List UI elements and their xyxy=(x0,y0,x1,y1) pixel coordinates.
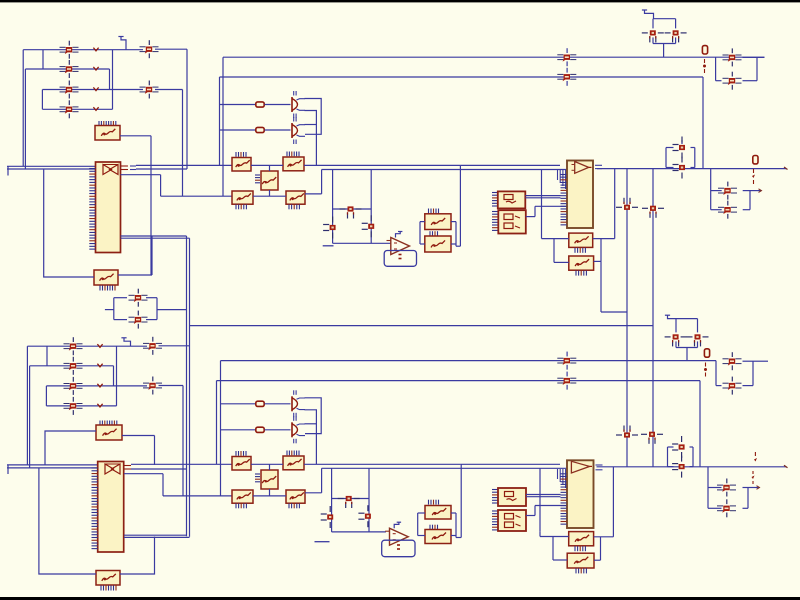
wire into X4 xyxy=(542,238,569,240)
wire vertical to bus b xyxy=(26,346,28,465)
dashed stub below R3 xyxy=(703,59,706,73)
wire vertical to F/G B xyxy=(460,464,462,537)
wire X2 right xyxy=(118,274,152,276)
connector J6 pin1 xyxy=(723,48,742,66)
capacitor C6 xyxy=(673,157,686,179)
wire vertical U5 xyxy=(534,206,536,216)
pins above X1 xyxy=(99,121,116,126)
wire end tick B xyxy=(784,465,788,468)
wire X4B right xyxy=(594,536,614,538)
connector J4B on net1b xyxy=(557,352,576,370)
long wire net1b xyxy=(221,360,717,362)
wire U1B right pin B xyxy=(124,536,190,538)
pins left of X3B xyxy=(255,474,260,482)
component X1 above U1 xyxy=(95,126,120,141)
wire cap row xyxy=(333,208,372,210)
wire bracket connector pair cluster2 xyxy=(711,169,750,210)
wire X1B right down to bus xyxy=(154,436,156,465)
pins above X1B xyxy=(100,421,117,426)
wire row B to U2 xyxy=(542,169,568,171)
feedback box U3B xyxy=(382,540,415,557)
capacitor C9 xyxy=(362,215,375,237)
long wire net1 xyxy=(223,56,765,58)
capacitor C4B xyxy=(641,432,663,444)
dashed stub below R3B xyxy=(704,363,707,377)
pin drop wires into U2B xyxy=(558,469,566,488)
wire vertical X4-X5 right xyxy=(600,239,602,262)
wire row2 xyxy=(25,68,109,70)
wire into X5 xyxy=(554,261,569,263)
wire C2B top lead xyxy=(697,319,699,333)
wire C1B bottom lead xyxy=(675,341,677,347)
pins below R7 xyxy=(236,205,246,210)
wire to R1B xyxy=(221,403,256,405)
pins left of U5B xyxy=(492,511,498,530)
connector J1 pin1 xyxy=(60,41,79,59)
wire vertical r2-r3 xyxy=(109,69,111,90)
connector J9 pin2 xyxy=(143,377,162,395)
wire U1B pin stub right xyxy=(124,473,163,475)
twin vertical wire B xyxy=(189,238,191,537)
wire row3b xyxy=(46,385,147,387)
bottom border bar xyxy=(0,597,800,600)
polarity mark xyxy=(97,384,102,387)
IC U1B left pins xyxy=(92,468,98,549)
wire stub right of J6 xyxy=(757,56,765,58)
wire vertical net1b down xyxy=(220,361,222,496)
wire row1 right xyxy=(113,49,144,51)
wire R2 to Q2 xyxy=(265,129,291,131)
wire bracket to net1 xyxy=(663,44,665,58)
wire C1 top lead xyxy=(652,19,654,29)
component X4B xyxy=(569,532,594,546)
connector J2 pin1 xyxy=(140,40,159,58)
connector J4 on net1 xyxy=(557,48,576,66)
wire row D xyxy=(161,195,232,197)
pins below X2B xyxy=(101,586,116,591)
wire vertical r2-r3 b xyxy=(113,366,115,386)
wire X5 right xyxy=(594,260,601,262)
ground stub xyxy=(323,245,334,247)
wire vertical R8B-net xyxy=(321,468,323,493)
twin vertical wire A xyxy=(186,236,188,536)
IC U1 left pins xyxy=(89,169,95,250)
long wire mid horizontal xyxy=(190,325,654,327)
pin drop wires into U2 xyxy=(558,170,566,189)
ground stub B xyxy=(315,541,330,543)
bus wire lower xyxy=(7,168,96,170)
connector J3 pin1 xyxy=(129,289,148,307)
pins below X2 xyxy=(100,286,115,291)
wire vertical r1-r4 b xyxy=(116,346,118,406)
pins above R5B xyxy=(236,451,246,456)
capacitor C1 xyxy=(642,30,664,42)
filter block R10 xyxy=(425,236,451,252)
wire stub right of J6B xyxy=(753,360,768,362)
wire U1B right pin A xyxy=(124,534,187,536)
connector J7B pin1 xyxy=(717,479,736,497)
pins below R8 xyxy=(289,205,299,210)
wire cap row B xyxy=(332,498,369,500)
connector J5 on net2 xyxy=(557,68,576,86)
wire U5 to U2 xyxy=(535,205,567,207)
wire col2 row1 xyxy=(155,48,187,50)
wire X1B left to bus xyxy=(45,431,96,465)
connector J3 pin2 xyxy=(129,311,148,329)
pins below X4B xyxy=(575,546,585,551)
wire R1B to Q1B xyxy=(265,403,291,405)
wire X1 to vertical link xyxy=(120,135,151,137)
connector J8 pin2 xyxy=(64,357,83,375)
logic block U4B xyxy=(498,488,526,506)
connector J9 pin1 xyxy=(143,337,162,355)
wire vertical to X4 xyxy=(541,170,543,239)
wire U1 right lower pin A xyxy=(121,235,187,237)
capacitor C1B xyxy=(665,334,687,346)
wire to x627 xyxy=(601,311,627,313)
connector J6 pin2 xyxy=(723,72,742,90)
connector J8 pin1 xyxy=(64,337,83,355)
wire R5B-R6B xyxy=(251,463,283,465)
long wire net2 xyxy=(220,76,704,78)
bus wire lower b xyxy=(7,467,98,469)
wire vertical R8-net xyxy=(321,170,323,194)
wire vertical down right xyxy=(600,261,602,312)
wire to R1 xyxy=(220,104,256,106)
wire U4B to U2B b xyxy=(526,496,561,498)
IC U1 main controller xyxy=(96,162,121,253)
wire X4 right xyxy=(593,238,615,240)
resistor network R5 xyxy=(232,158,251,172)
wire Q1B collector loop xyxy=(305,398,322,434)
wire vertical x653 xyxy=(652,169,654,467)
bus wire upper xyxy=(7,165,96,167)
IC U2 right pin stubs xyxy=(595,165,602,168)
antenna flag cluster3 xyxy=(665,315,676,318)
wire U4 to U2 a xyxy=(525,195,560,197)
wire capB bracket bottom xyxy=(676,347,698,349)
wire U1 pin2 to col2r1 xyxy=(136,168,187,170)
wire cap bracket bottom xyxy=(653,43,676,45)
pins above R9 xyxy=(429,209,439,214)
resistor network R8B xyxy=(286,490,305,503)
IC U1B main controller B xyxy=(98,462,124,553)
IC U1 right pin stubs xyxy=(121,166,137,170)
wire bracket mid-left pair xyxy=(114,298,157,320)
connector J1 pin3 xyxy=(60,81,79,99)
antenna flag top-left xyxy=(118,37,126,50)
wire to R2B xyxy=(221,429,256,431)
wire row1b right xyxy=(117,345,148,347)
wire into X5B xyxy=(553,559,567,561)
polarity mark xyxy=(93,87,98,90)
wire bracket F/G right B xyxy=(451,513,461,538)
dashed stub below bus right B xyxy=(752,471,755,484)
antenna flag bottom-left xyxy=(121,338,130,346)
wire vertical X4B-X5B right xyxy=(600,537,602,560)
wire rowB-b to U2B xyxy=(542,467,568,469)
logic block U5 xyxy=(498,210,526,233)
wire row1 xyxy=(23,49,112,51)
filter block R10B xyxy=(425,530,451,544)
resistor network R8 xyxy=(286,191,305,204)
wire vertical r3-r4 b xyxy=(45,386,47,406)
wire R8 right stub xyxy=(305,193,322,195)
capacitor C4 xyxy=(642,206,664,218)
wire vertical U5B xyxy=(534,506,536,516)
wire Q2 collector stub xyxy=(305,124,317,126)
IC U2B power amplifier B xyxy=(567,460,594,528)
wire capB bracket top xyxy=(676,318,698,320)
connector J7 pin1 xyxy=(718,182,737,200)
wire U5 stub right xyxy=(526,216,535,218)
pins above R10 xyxy=(430,231,438,235)
capacitor C5B xyxy=(672,436,685,458)
component X3B center xyxy=(261,470,278,489)
wire Q2B collector stub xyxy=(305,423,317,425)
polarity mark xyxy=(97,404,102,407)
long wire output net right B xyxy=(597,466,787,468)
connector J8 pin3 xyxy=(64,377,83,395)
IC U2B left pins xyxy=(561,474,567,524)
wire R1 to Q1 xyxy=(265,104,291,106)
wire vertical right cap branch B xyxy=(368,468,370,532)
connector J6B pin2 xyxy=(723,377,742,395)
op-amp U3 xyxy=(387,238,410,255)
wire U5B stub right xyxy=(526,515,535,517)
wire X2 left to bus xyxy=(44,169,94,277)
wire R8B right stub xyxy=(305,492,322,494)
connector J5B on net2b xyxy=(557,372,576,390)
bus end stub b xyxy=(7,465,9,474)
capacitor C3B xyxy=(616,426,638,438)
resistor network R7B xyxy=(232,490,253,503)
wire col2b row2 xyxy=(159,385,184,387)
connector J7 pin2 xyxy=(718,201,737,219)
long wire output net right xyxy=(597,168,787,170)
capacitor C2B xyxy=(687,334,709,346)
wire vertical right cap branch xyxy=(370,170,372,244)
wire rowD-b xyxy=(163,495,232,497)
transistor Q2 xyxy=(292,117,305,144)
wire caps to op-amp xyxy=(333,242,391,244)
wire vertical from output net B xyxy=(612,467,614,537)
wire col2 row2 xyxy=(155,89,183,91)
wire vertical col2r1 to bus xyxy=(186,49,188,169)
pins above R9B xyxy=(429,500,439,505)
wire bracket stacked caps cluster4 xyxy=(668,447,694,467)
pins below X4 xyxy=(575,248,585,253)
pins below R8B xyxy=(289,504,299,509)
polarity mark xyxy=(97,364,102,367)
pins below R7B xyxy=(236,504,246,509)
wire U1 right lower pin B xyxy=(121,237,190,239)
transistor Q1 xyxy=(292,91,305,118)
filter block R9 xyxy=(425,214,451,230)
wire end tick xyxy=(784,167,788,170)
resistor network R6 xyxy=(283,157,304,171)
long wire net2b xyxy=(217,380,701,382)
wire bracket connector pair cluster4 xyxy=(708,467,748,509)
IC U2B right pin stubs xyxy=(596,465,603,470)
wire stub left of J3 xyxy=(105,309,114,311)
resistor network R5B xyxy=(232,457,251,471)
bus wire upper b xyxy=(7,464,98,466)
wire stub X3B top xyxy=(269,464,271,470)
wire cap bracket top xyxy=(653,18,676,20)
wire vertical X2 up to twin xyxy=(151,237,153,276)
IC U2 power amplifier xyxy=(567,161,593,229)
capacitor C2 xyxy=(665,30,687,42)
op-amp U3B xyxy=(385,528,408,545)
wire vertical r1-r2 xyxy=(42,50,44,69)
polarity mark xyxy=(93,107,98,110)
resistor R3B xyxy=(704,349,709,357)
component X2 below U1 xyxy=(94,270,118,285)
wire row A continues xyxy=(304,164,460,166)
polarity mark xyxy=(97,344,102,347)
wire U1B pin2 link xyxy=(131,468,187,470)
resistor network R7 xyxy=(232,191,253,204)
wire vertical r1-r4 xyxy=(112,50,114,110)
wire vertical to bus b2 xyxy=(29,366,31,468)
wire Q1 collector loop xyxy=(305,99,322,135)
transistor Q1B xyxy=(292,390,305,417)
wire vertical left cap branch B xyxy=(331,468,333,532)
wire vertical to F/G xyxy=(459,165,461,246)
resistor network R6B xyxy=(283,456,304,470)
wire vertical col2b to row xyxy=(182,386,184,496)
wire U5B to U2B xyxy=(535,505,567,507)
capacitor C8B xyxy=(321,506,334,528)
wire stub X3 top xyxy=(269,165,271,171)
wire vertical to rowD-b xyxy=(162,474,164,496)
wire vertical left cap branch xyxy=(332,170,334,244)
capacitor C7 xyxy=(340,206,362,218)
capacitor C6B xyxy=(672,456,685,478)
wire vertical x627 xyxy=(626,169,628,467)
IC U2 left pins xyxy=(561,175,567,225)
polarity mark xyxy=(93,67,98,70)
pins left of U5 xyxy=(492,212,498,231)
wire net2b vertical xyxy=(699,381,701,467)
wire vertical to bus xyxy=(24,69,26,169)
resistor R3 xyxy=(702,46,707,54)
wire U4B to U2B a xyxy=(526,494,561,496)
wire R7-R8 xyxy=(253,195,286,197)
wire rowA-b to U2B xyxy=(460,463,560,465)
connector J7B pin2 xyxy=(717,499,736,517)
component X2B below U1B xyxy=(96,571,120,586)
bus end stub xyxy=(7,166,9,175)
capacitor C8 xyxy=(323,217,336,239)
wire vertical r3-r4 xyxy=(41,90,43,110)
wire J3 to twin vertical xyxy=(157,309,187,311)
wire X2B right up xyxy=(120,537,155,574)
resistor R2 xyxy=(256,127,264,132)
component X4 xyxy=(569,233,593,247)
wire C2 bottom lead xyxy=(675,37,677,43)
wire to R2 xyxy=(220,129,256,131)
IC U1B right pin stubs xyxy=(124,466,131,470)
logic block U5B xyxy=(498,510,526,531)
wire row4 xyxy=(42,108,112,110)
resistor R1B xyxy=(256,401,264,406)
component X5B xyxy=(567,553,594,568)
antenna flag cluster1 xyxy=(642,10,654,19)
pins below X5B xyxy=(576,568,586,573)
pins above R10B xyxy=(430,525,438,529)
top border bar xyxy=(0,0,800,2)
wire U1 pin stub right xyxy=(121,174,161,176)
small mark above bus right B xyxy=(754,452,757,462)
wire R2B to Q2B xyxy=(265,429,291,431)
pins left of X3 xyxy=(255,175,260,183)
wire stub X3B bottom xyxy=(269,489,271,496)
pins above R6 xyxy=(287,152,299,157)
wire into X4B xyxy=(540,536,569,538)
wire C2 top lead xyxy=(675,19,677,29)
wire rowB-b xyxy=(322,467,542,469)
wire row2b xyxy=(30,365,114,367)
connector J8 pin4 xyxy=(64,397,83,415)
resistor R1 xyxy=(256,102,264,107)
component X3 center xyxy=(261,171,278,190)
wire stub X3 bottom xyxy=(269,190,271,196)
pins above R5 xyxy=(236,152,246,157)
wire row3 xyxy=(42,89,143,91)
wire vertical to X5B xyxy=(552,537,554,561)
connector J2 pin2 xyxy=(140,81,159,99)
wire col2b row1 xyxy=(159,345,190,347)
wire U4 to U2 b xyxy=(525,197,560,199)
wire net2 vertical xyxy=(702,77,704,169)
wire Q1 emitter down xyxy=(305,111,317,166)
wire rowA-b continues xyxy=(304,463,460,465)
wire bracket stacked caps cluster2 xyxy=(666,140,695,168)
transistor Q2B xyxy=(292,416,305,443)
wire row1b xyxy=(27,345,116,347)
flag above op-amp U3 xyxy=(396,232,401,238)
wire vertical net2b down xyxy=(216,381,218,465)
pins left of U4 xyxy=(492,193,498,207)
wire vertical from net2 xyxy=(219,77,221,165)
logic block U4 xyxy=(498,191,526,208)
wire C2B bottom lead xyxy=(697,341,699,347)
polarity mark xyxy=(93,48,98,51)
wire rowA-b xyxy=(131,463,232,465)
component X5 xyxy=(569,256,594,270)
wire row A to U2 xyxy=(460,164,560,166)
connector J6B pin1 xyxy=(723,352,742,370)
wire Q1B emitter down xyxy=(305,410,317,465)
capacitor C7B xyxy=(338,496,360,508)
pins below X5 xyxy=(576,271,586,276)
wire vertical from net1 xyxy=(222,57,224,196)
wire vertical to X5 xyxy=(553,239,555,263)
pins above R6B xyxy=(287,451,299,456)
wire caps to op-amp B xyxy=(332,531,386,533)
capacitor C3 xyxy=(616,198,638,210)
wire bracket connector pair cluster3 xyxy=(716,361,753,386)
wire R5-R6 xyxy=(251,164,283,166)
wire vertical to bus xyxy=(22,50,24,167)
wire bracket connector pair cluster1 xyxy=(716,57,757,80)
connector J1 pin4 xyxy=(60,100,79,118)
wire C1 bottom lead xyxy=(652,37,654,43)
wire stub right of J7B with arrow xyxy=(748,486,760,490)
filter block R9B xyxy=(425,506,451,520)
